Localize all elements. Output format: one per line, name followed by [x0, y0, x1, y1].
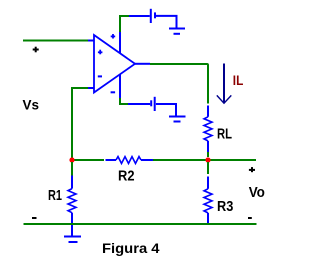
op-amp U1 inner plus mark	[98, 50, 103, 55]
wire: V- battery to ground	[156, 104, 176, 116]
resistor R2	[106, 157, 154, 164]
wire: negative supply corner (green)	[120, 98, 128, 104]
svg-text:Vo: Vo	[249, 185, 265, 201]
wire: negative supply pin (blue part)	[119, 74, 121, 99]
wire: positive supply corner (green)	[120, 16, 129, 32]
battery V+ long plate	[150, 9, 152, 23]
ground (below R1)	[64, 237, 81, 243]
node: plus polarity mark of Vo (black)	[249, 167, 255, 172]
wire: inverting input pin stub	[88, 87, 94, 89]
wire: output node row (left dot to R2)	[72, 159, 104, 161]
op-amp U1 triangle	[94, 35, 135, 93]
ground (bottom, V- battery)	[169, 117, 186, 122]
ground (top, V+ battery)	[169, 29, 185, 34]
op-amp U1 inner minus mark	[98, 75, 102, 77]
wire: RL bottom lead to node (green)	[207, 152, 209, 157]
node: minus polarity mark of Vo (black)	[248, 217, 252, 219]
battery V+ short plate	[154, 12, 156, 18]
svg-text:RL: RL	[217, 126, 232, 143]
wire: V+ battery to ground	[156, 16, 177, 28]
battery V- long plate	[154, 97, 156, 111]
wire: lead to V- battery	[128, 103, 150, 105]
svg-text:R1: R1	[48, 187, 62, 204]
wire: bottom ground rail	[24, 223, 257, 225]
wire: op-amp output stub	[135, 63, 150, 65]
junction dot right	[205, 157, 210, 162]
wire: node row R2 to right edge	[153, 159, 256, 161]
svg-text:Vs: Vs	[23, 96, 40, 112]
node: plus polarity mark of Vs (black)	[33, 47, 39, 53]
resistor RL	[204, 106, 212, 153]
node: minus polarity mark of Vs (black)	[32, 217, 37, 219]
wire: top-left rail to non-inverting input	[23, 40, 88, 42]
wire: positive supply pin (blue part)	[119, 31, 121, 54]
battery V- short plate	[150, 100, 152, 106]
wire: inverting input feedback corner (left vertical)	[72, 88, 88, 160]
resistor R1	[68, 162, 76, 236]
svg-text:Figura 4: Figura 4	[102, 240, 160, 256]
resistor R3	[204, 162, 212, 224]
svg-text:IL: IL	[233, 72, 244, 88]
svg-text:R2: R2	[118, 167, 135, 184]
op-amp U1 V- minus mark	[111, 91, 116, 93]
svg-text:R3: R3	[217, 198, 233, 215]
current arrow IL	[217, 64, 232, 104]
junction dot left	[69, 157, 74, 162]
op-amp U1 V+ plus mark	[111, 34, 116, 39]
wire: non-inverting input pin stub	[88, 40, 94, 42]
wire: output to load corner	[150, 64, 208, 104]
wire: lead to V+ battery	[129, 15, 150, 17]
